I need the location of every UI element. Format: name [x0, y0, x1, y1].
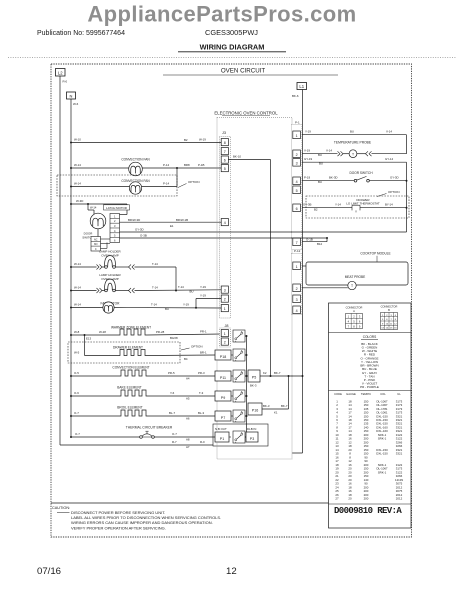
- svg-text:P-19: P-19: [304, 176, 310, 180]
- svg-text:Y-19: Y-19: [305, 130, 311, 134]
- svg-text:2: 2: [224, 341, 226, 345]
- wire P-1 pin 7 stub O-1B B12: [302, 237, 328, 246]
- svg-text:1: 1: [296, 134, 298, 138]
- wire P-1 pin 3 row GY-19 GY-14: [302, 157, 407, 232]
- connector P-1 pin 7: [293, 238, 301, 246]
- meat probe RT2: [345, 275, 366, 290]
- publication number text: [37, 30, 125, 37]
- svg-text:5: 5: [224, 167, 226, 171]
- caution text block: [52, 506, 221, 530]
- svg-text:P-1: P-1: [295, 120, 300, 124]
- svg-text:CONVECTION ELEMENT: CONVECTION ELEMENT: [112, 365, 149, 369]
- svg-text:T: T: [352, 152, 354, 156]
- svg-text:7: 7: [296, 241, 298, 245]
- svg-text:W-14: W-14: [74, 285, 81, 289]
- wire L1 bus BK-6 vertical: [292, 90, 303, 454]
- svg-text:P-14: P-14: [163, 182, 169, 186]
- sheet title WIRING DIAGRAM: [178, 43, 286, 52]
- svg-text:V-19: V-19: [304, 149, 310, 153]
- svg-text:20: 20: [348, 497, 352, 501]
- svg-text:Y-19: Y-19: [200, 293, 206, 297]
- connector J3 pin 3: [221, 286, 228, 293]
- svg-text:W-14: W-14: [90, 205, 97, 209]
- svg-text:DRAWER ELEMENT: DRAWER ELEMENT: [113, 345, 143, 349]
- connector P-12 pin 2: [293, 284, 301, 292]
- resistor bake element: [117, 385, 148, 396]
- option dashed box drawer lo limit thermostat: [306, 190, 409, 218]
- connector P-1 pin 5: [293, 186, 301, 194]
- relay K2 contact: [233, 349, 247, 361]
- svg-text:P-14: P-14: [163, 163, 169, 167]
- watermark logo AppliancePartsPros.com: [87, 2, 356, 27]
- svg-text:1: 1: [224, 307, 226, 311]
- svg-text:B4/28: B4/28: [170, 336, 178, 340]
- connector P18: [215, 350, 233, 360]
- svg-text:3: 3: [296, 161, 298, 165]
- svg-text:TEMP/C: TEMP/C: [361, 392, 371, 396]
- info box frame: [329, 303, 412, 528]
- svg-text:P7: P7: [221, 416, 225, 420]
- cooktop module box: [306, 262, 408, 285]
- connector J8: [220, 324, 231, 347]
- svg-text:W-19: W-19: [199, 138, 206, 142]
- wire convection fan 2 row W-14 / P-14: [70, 168, 177, 188]
- connector P3 DLB IN: [246, 427, 258, 442]
- svg-text:P16: P16: [252, 408, 258, 412]
- svg-text:1: 1: [296, 265, 298, 269]
- node N: [67, 92, 76, 99]
- drawing number D0009810 REV:A: [334, 506, 402, 516]
- svg-text:O-7: O-7: [75, 432, 80, 436]
- connector P-1: [292, 120, 303, 249]
- cooktop module label: [360, 252, 390, 262]
- motor convection fan 2: [121, 179, 150, 194]
- footer date: [37, 566, 61, 577]
- svg-text:W-14: W-14: [74, 181, 81, 185]
- svg-text:BU: BU: [350, 130, 354, 134]
- temperature probe RT1: [334, 141, 372, 158]
- svg-text:BK-6: BK-6: [292, 94, 299, 98]
- svg-text:BL-3: BL-3: [198, 411, 204, 415]
- svg-text:W-3D: W-3D: [76, 199, 83, 203]
- svg-text:8: 8: [224, 141, 226, 145]
- wire R-7 row from L2 to DLB: [60, 440, 213, 449]
- relay K1 contact: [233, 330, 247, 342]
- wire thermal breaker row O-7 to P1: [70, 432, 215, 442]
- svg-text:T-14: T-14: [152, 285, 158, 289]
- svg-text:BK-7: BK-7: [281, 404, 288, 408]
- DLB outer box: [213, 424, 268, 446]
- wire N bus W-6 vertical: [71, 99, 79, 437]
- svg-text:4: 4: [296, 309, 298, 313]
- svg-text:3: 3: [224, 289, 226, 293]
- model number text: [205, 28, 258, 37]
- svg-text:L2: L2: [58, 71, 63, 76]
- svg-text:2: 2: [224, 298, 226, 302]
- connector J3 pin 4: [221, 219, 228, 226]
- svg-text:PR-1: PR-1: [200, 329, 207, 333]
- svg-text:A6: A6: [186, 417, 190, 421]
- legend color codes: [360, 335, 379, 389]
- wire warmer zone row W-8 / PR-28 to J8 pin 1: [70, 329, 221, 340]
- svg-text:W-28: W-28: [99, 330, 106, 334]
- svg-text:P3: P3: [250, 437, 254, 441]
- connector P-1 pin 4: [293, 177, 301, 185]
- wire GY-3D long row: [120, 227, 407, 232]
- wire O-3B long row: [120, 233, 328, 238]
- connector P16: [248, 403, 262, 415]
- svg-text:PR-3: PR-3: [198, 371, 205, 375]
- svg-text:UL: UL: [397, 392, 401, 396]
- svg-text:P1: P1: [220, 437, 224, 441]
- svg-text:O-3B: O-3B: [140, 233, 147, 237]
- svg-text:BK-7: BK-7: [274, 371, 281, 375]
- svg-text:B2: B2: [314, 207, 318, 211]
- svg-text:GAUGE: GAUGE: [346, 392, 356, 396]
- connector P5: [248, 370, 260, 382]
- lamp oven lamp 1 holder: [97, 249, 135, 269]
- svg-text:B4: B4: [184, 357, 188, 361]
- svg-text:T: T: [351, 284, 353, 288]
- wire L1 bus to DLB box: [268, 446, 303, 453]
- resistor warmer zone element: [111, 326, 151, 335]
- wire L2 bus R-0 vertical: [60, 76, 68, 445]
- svg-text:BR/W-3D: BR/W-3D: [128, 218, 140, 222]
- wire W-14 motor branch: [88, 204, 97, 214]
- svg-text:2: 2: [296, 287, 298, 291]
- connector J3 pin 1: [221, 305, 228, 312]
- svg-text:GY-19: GY-19: [304, 157, 312, 161]
- svg-text:T-14: T-14: [151, 302, 157, 306]
- svg-text:Publication No: 5995677464: Publication No: 5995677464: [37, 30, 125, 37]
- svg-text:V-14: V-14: [386, 130, 392, 134]
- svg-text:B2: B2: [184, 138, 188, 142]
- svg-text:BK-3D: BK-3D: [329, 176, 338, 180]
- wire BK-10 from J3 pin 6 down to P5: [228, 154, 270, 376]
- switch door switch (oven): [349, 171, 373, 182]
- connector table B: [381, 305, 398, 330]
- svg-text:6: 6: [224, 159, 226, 163]
- svg-text:T-14: T-14: [178, 285, 184, 289]
- svg-text:A7: A7: [186, 445, 190, 449]
- motor fan motor: [101, 301, 121, 313]
- svg-text:BR/W-1B: BR/W-1B: [176, 218, 188, 222]
- resistor drawer element: [113, 345, 147, 355]
- wire P5 row K2 BK-7: [250, 371, 304, 387]
- svg-text:Y-6: Y-6: [170, 391, 175, 395]
- wire P-12 pin 2 row to meat probe: [302, 287, 348, 289]
- connector table A: [346, 306, 363, 329]
- svg-text:B12: B12: [317, 242, 323, 246]
- svg-text:O-7: O-7: [74, 411, 79, 415]
- svg-text:AppliancePartsPros.com: AppliancePartsPros.com: [87, 2, 356, 27]
- door switch label: [82, 232, 93, 240]
- svg-text:12: 12: [226, 566, 237, 577]
- svg-text:MEAT PROBE: MEAT PROBE: [345, 275, 366, 279]
- motor convection fan 1: [121, 157, 150, 176]
- caution divider: [51, 502, 329, 504]
- connector latch switch column pins 1-6: [110, 214, 120, 243]
- connector P7: [215, 411, 233, 421]
- svg-text:BK-10: BK-10: [233, 154, 241, 158]
- svg-text:GY-3D: GY-3D: [390, 176, 399, 180]
- svg-text:SRK-1: SRK-1: [378, 470, 387, 474]
- svg-text:BR8: BR8: [184, 163, 190, 167]
- svg-text:P18: P18: [220, 355, 226, 359]
- connector P1 N.B OUT: [215, 427, 231, 442]
- connector J3: [219, 131, 230, 318]
- svg-text:W-6: W-6: [73, 102, 79, 106]
- svg-text:R-0: R-0: [200, 440, 205, 444]
- svg-text:OPTION: OPTION: [188, 180, 200, 184]
- relay K6 contact: [233, 431, 247, 443]
- svg-text:WIRING DIAGRAM: WIRING DIAGRAM: [200, 43, 265, 52]
- svg-text:Y-14: Y-14: [335, 203, 341, 207]
- svg-text:O-1B: O-1B: [306, 238, 313, 242]
- svg-text:O-7: O-7: [172, 432, 177, 436]
- svg-text:E1: E1: [170, 224, 174, 228]
- svg-text:PR-5: PR-5: [168, 371, 175, 375]
- connector P-1 pin 3: [293, 159, 301, 167]
- svg-text:Y-19: Y-19: [183, 302, 189, 306]
- latch motor label box: [104, 205, 130, 210]
- svg-text:P-1B: P-1B: [198, 163, 204, 167]
- node L1: [297, 83, 307, 90]
- svg-text:2: 2: [296, 153, 298, 157]
- svg-text:BU: BU: [190, 290, 194, 294]
- svg-text:D0009810 REV:A: D0009810 REV:A: [334, 506, 402, 516]
- svg-text:6: 6: [296, 207, 298, 211]
- svg-text:PR - PURPLE: PR - PURPLE: [360, 385, 379, 389]
- svg-text:O-5: O-5: [74, 371, 79, 375]
- footer page number: [226, 566, 237, 577]
- diagram sheet border: [51, 64, 412, 537]
- svg-text:P5: P5: [252, 375, 256, 379]
- svg-text:NC: NC: [94, 238, 98, 241]
- svg-text:OVEN CIRCUIT: OVEN CIRCUIT: [221, 67, 266, 74]
- connector J8 pin 2: [221, 338, 228, 345]
- wire P-1 pin 2 probe row V-19: [302, 149, 407, 157]
- wire P16 row BK-3 K1 BK-7: [262, 376, 289, 415]
- svg-text:E13: E13: [86, 337, 92, 341]
- svg-text:27: 27: [335, 497, 339, 501]
- svg-text:7: 7: [224, 150, 226, 154]
- svg-text:CGES3005PWJ: CGES3005PWJ: [205, 28, 258, 37]
- svg-text:BK-3: BK-3: [250, 383, 257, 387]
- svg-text:3321: 3321: [396, 452, 403, 456]
- svg-text:BU: BU: [318, 180, 322, 184]
- wire broil element row O-7 to P7: [70, 411, 215, 421]
- wire W-10 row to J3 pin 8: [70, 138, 221, 144]
- svg-text:K2: K2: [263, 371, 267, 375]
- svg-text:DOOR SWITCH: DOOR SWITCH: [349, 171, 373, 175]
- svg-text:2012: 2012: [396, 497, 403, 501]
- svg-text:BU: BU: [319, 162, 323, 166]
- dotted page separator line: [8, 56, 456, 58]
- svg-text:T-14: T-14: [152, 262, 158, 266]
- wire table rows: [334, 392, 403, 501]
- node L2: [56, 69, 66, 77]
- svg-text:TEMPERATURE PROBE: TEMPERATURE PROBE: [334, 141, 372, 145]
- switch door switch contact block: [91, 229, 110, 251]
- wire BR/W-3D to J3 pin 4: [120, 218, 222, 228]
- wire relay output bus: [246, 335, 248, 438]
- svg-text:BY-14: BY-14: [385, 203, 393, 207]
- wire W-3D latch feed: [70, 199, 127, 214]
- svg-text:A8: A8: [186, 437, 190, 441]
- svg-text:P9: P9: [221, 396, 225, 400]
- circuit title OVEN CIRCUIT: [163, 67, 338, 75]
- svg-text:A: A: [353, 309, 355, 313]
- connector J3 pin 8: [221, 139, 228, 146]
- svg-text:3: 3: [296, 298, 298, 302]
- connector J3 pin 6: [221, 156, 228, 163]
- svg-text:B: B: [388, 308, 390, 312]
- svg-text:5: 5: [296, 189, 298, 193]
- connector J3 pin 7: [221, 148, 228, 155]
- connector J3 pin 2: [221, 295, 228, 302]
- wire bake element row O-6 to P9: [70, 391, 215, 401]
- connector P-12 pin 4: [293, 306, 301, 314]
- svg-text:BL-7: BL-7: [169, 411, 175, 415]
- electronic oven control U1 box: [214, 111, 292, 459]
- thermostat drawer lo limit: [346, 198, 380, 213]
- svg-text:4: 4: [224, 221, 226, 225]
- svg-text:COLORS: COLORS: [363, 335, 376, 339]
- wire P-1 pin 6 row GY-3B Y-14 BY-14: [302, 203, 408, 212]
- svg-text:BROIL ELEMENT: BROIL ELEMENT: [117, 405, 142, 409]
- svg-text:GY-14: GY-14: [385, 157, 393, 161]
- resistor broil element: [117, 405, 148, 416]
- svg-text:T-3: T-3: [199, 391, 204, 395]
- wire P-1 pin 1 row Y-19 V-14: [302, 130, 407, 154]
- svg-text:J3: J3: [222, 131, 226, 135]
- svg-text:CODE: CODE: [334, 392, 342, 396]
- svg-text:07/16: 07/16: [37, 566, 61, 577]
- svg-text:NO: NO: [94, 243, 98, 246]
- svg-text:V-14: V-14: [326, 149, 332, 153]
- svg-text:LATCH MOTOR: LATCH MOTOR: [106, 206, 127, 210]
- svg-text:BU: BU: [165, 307, 169, 311]
- svg-text:A5: A5: [186, 397, 190, 401]
- connector P-12 pin 1: [293, 262, 301, 270]
- svg-text:THERMAL CIRCUIT BREAKER: THERMAL CIRCUIT BREAKER: [126, 425, 173, 429]
- wire convection element row O-5 to P11: [70, 371, 215, 381]
- svg-text:W-14: W-14: [74, 302, 81, 306]
- svg-text:W-5: W-5: [74, 350, 80, 354]
- thermal circuit breaker CB1: [126, 425, 173, 438]
- svg-text:A4: A4: [186, 377, 190, 381]
- svg-text:COOKTOP MODULE: COOKTOP MODULE: [360, 252, 390, 256]
- svg-text:OPTION: OPTION: [388, 190, 400, 194]
- wire fan motor row to J3 pin 1 and pin 2: [70, 293, 221, 311]
- connector P-1 pin 2: [293, 150, 301, 158]
- wire oven lamp 1 row W-14 / T-14: [70, 262, 176, 291]
- svg-text:K1: K1: [274, 411, 278, 415]
- relay K3 contact: [233, 370, 247, 382]
- option dashed box convection fan 2: [57, 175, 200, 196]
- connector P-1 pin 1: [293, 131, 301, 139]
- wire P-12 pin 1 row to cooktop module: [302, 265, 306, 267]
- relay K5 contact: [233, 410, 247, 422]
- svg-text:BAKE ELEMENT: BAKE ELEMENT: [117, 385, 141, 389]
- svg-text:PR-28: PR-28: [156, 330, 165, 334]
- svg-text:N.B OUT: N.B OUT: [215, 427, 227, 431]
- svg-text:R-0: R-0: [63, 80, 68, 84]
- svg-text:R-7: R-7: [172, 440, 177, 444]
- svg-text:200: 200: [364, 497, 369, 501]
- svg-text:4: 4: [296, 180, 298, 184]
- resistor convection element: [112, 365, 149, 376]
- svg-text:OPTION: OPTION: [191, 345, 203, 349]
- connector P-1 pin 6: [293, 204, 301, 212]
- option dashed box drawer element: [68, 342, 203, 363]
- svg-text:LO LIMIT THERMOSTAT: LO LIMIT THERMOSTAT: [346, 201, 380, 205]
- svg-text:P11: P11: [220, 376, 226, 380]
- svg-text:CONVECTION FAN: CONVECTION FAN: [121, 157, 150, 161]
- svg-text:DXL-150: DXL-150: [376, 452, 388, 456]
- connector J3 pin 5: [221, 165, 228, 172]
- svg-text:BU: BU: [318, 153, 322, 157]
- connector J8 pin 1: [221, 330, 228, 337]
- svg-text:BK-3: BK-3: [263, 404, 270, 408]
- wire drawer element row W-5 to P18: [74, 335, 215, 361]
- svg-text:1: 1: [224, 332, 226, 336]
- svg-text:C: C: [95, 248, 97, 251]
- svg-text:GY-3D: GY-3D: [135, 227, 144, 231]
- svg-text:W-14: W-14: [74, 262, 81, 266]
- svg-text:W-8: W-8: [74, 330, 80, 334]
- relay K4 contact: [233, 390, 247, 402]
- wire convection fan 1 row W-14 / P-14 to J3 pin 5: [70, 163, 221, 169]
- connector P11: [215, 371, 233, 381]
- svg-text:N: N: [70, 94, 73, 99]
- svg-text:W-10: W-10: [74, 138, 81, 142]
- svg-text:BR-1: BR-1: [200, 351, 207, 355]
- svg-text:ELECTRONIC OVEN CONTROL: ELECTRONIC OVEN CONTROL: [214, 111, 278, 116]
- svg-text:O-6: O-6: [74, 391, 79, 395]
- svg-text:GY-3B: GY-3B: [303, 203, 311, 207]
- svg-text:P-12: P-12: [294, 249, 301, 253]
- connector P-12: [292, 249, 303, 315]
- connector P-12 pin 3: [293, 295, 301, 303]
- svg-text:VERIFY PROPER OPERATION AFTER: VERIFY PROPER OPERATION AFTER SERVICING.: [71, 525, 166, 530]
- svg-text:SRK-1: SRK-1: [378, 437, 387, 441]
- connector P9: [215, 391, 233, 401]
- motor latch motor: [90, 213, 106, 229]
- svg-text:CAUTION:: CAUTION:: [52, 506, 70, 510]
- wire oven lamp 2 row to J3 pin 3: [70, 285, 221, 294]
- svg-text:J8: J8: [224, 324, 228, 328]
- svg-text:COL: COL: [380, 392, 386, 396]
- svg-text:Y-19: Y-19: [200, 285, 206, 289]
- lamp oven lamp 2 holder: [97, 273, 135, 293]
- svg-text:W-14: W-14: [74, 163, 81, 167]
- svg-text:L1: L1: [299, 84, 304, 89]
- svg-text:DLB IN: DLB IN: [247, 427, 256, 431]
- wire P-1 pin 4 row P-19 BK-3D GY-3D: [302, 176, 408, 184]
